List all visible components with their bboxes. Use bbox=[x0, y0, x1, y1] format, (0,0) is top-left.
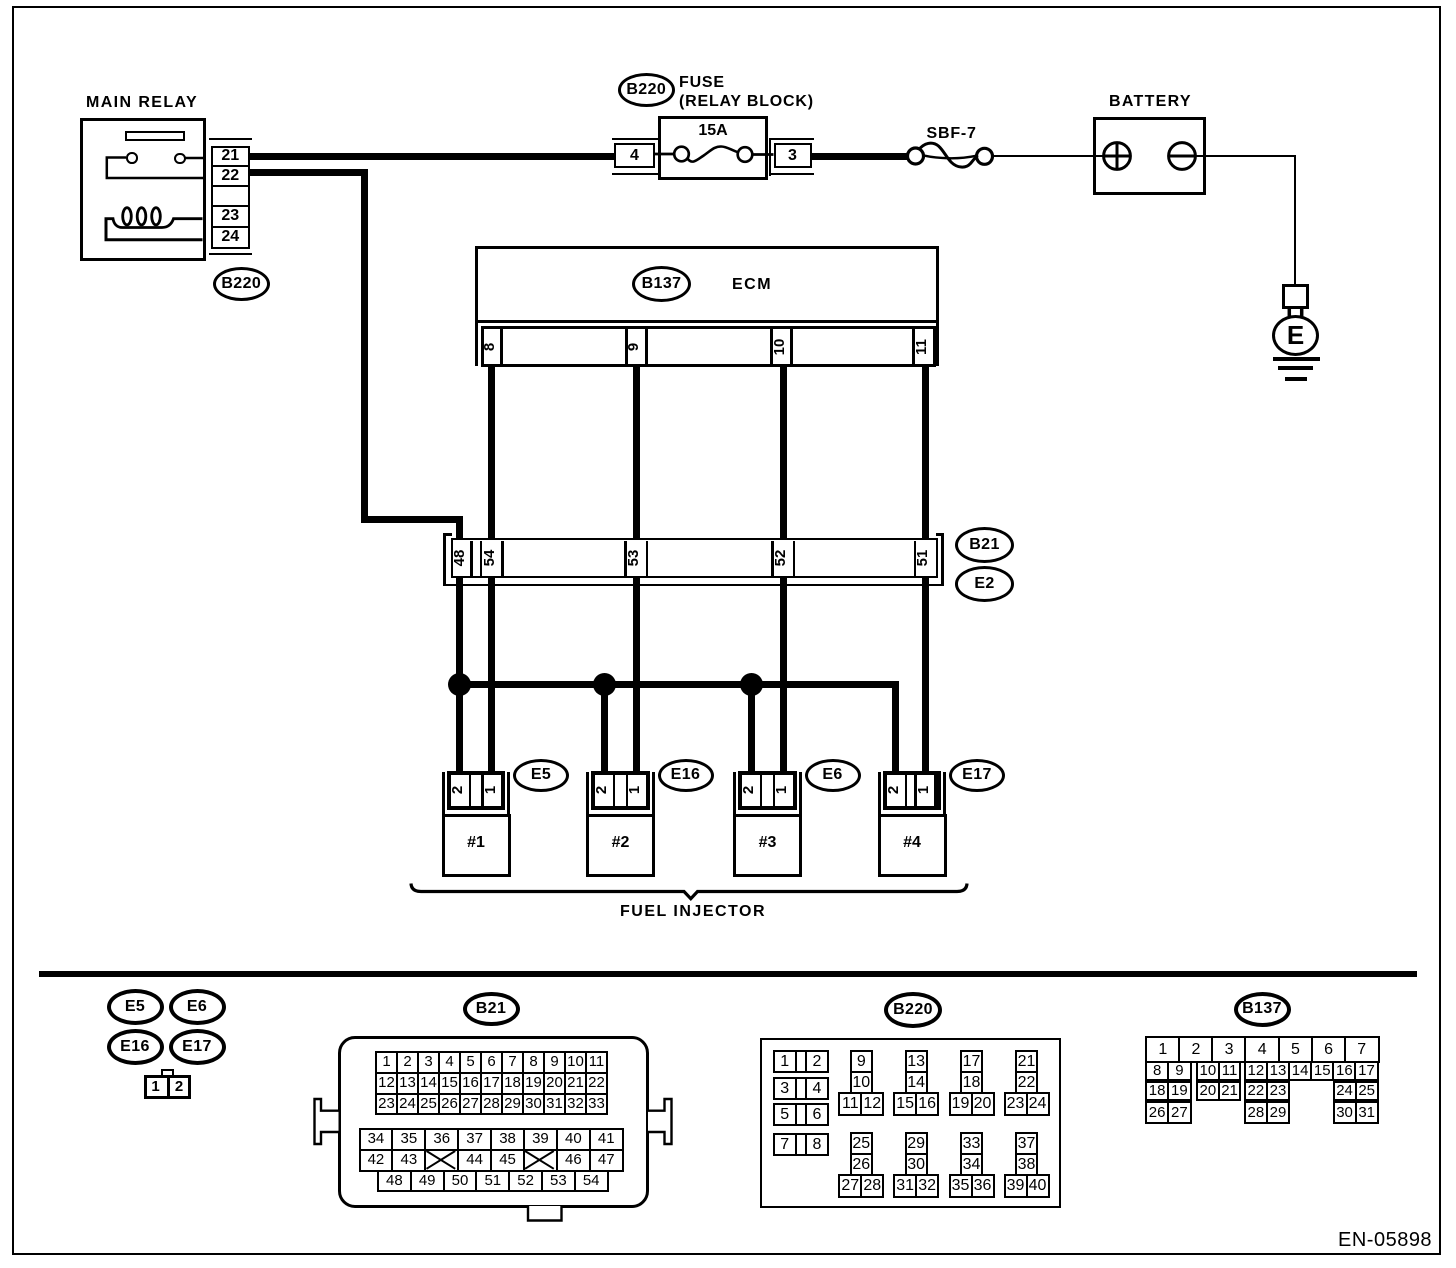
B137 view pin 4 bbox=[1244, 1036, 1280, 1063]
B220 view pins 13/14/15/16 bbox=[905, 1050, 928, 1073]
connector pin 51 bbox=[914, 547, 936, 569]
B21 view pin 41 bbox=[589, 1128, 624, 1151]
B21 view pin 24 bbox=[396, 1093, 419, 1116]
oval E16 (view) bbox=[107, 1029, 164, 1065]
B220 connector outer box bbox=[760, 1038, 1061, 1208]
B137 view pin 16 bbox=[1332, 1061, 1356, 1082]
connector pin 54 bbox=[481, 547, 503, 569]
wire: fuse pin 3 to SBF-7 bbox=[812, 153, 909, 160]
B21 view pin 17 bbox=[480, 1072, 503, 1095]
B137 view pin 3 bbox=[1211, 1036, 1247, 1063]
B21 view pin cell 47 bbox=[589, 1149, 624, 1172]
oval B220 at fuse bbox=[618, 73, 676, 107]
B21 view pin 38 bbox=[490, 1128, 525, 1151]
injector #4 pin 2 bbox=[885, 779, 907, 801]
B21 view pin 10 bbox=[564, 1051, 587, 1074]
fuse element symbol bbox=[674, 147, 689, 162]
B21 view pin 14 bbox=[417, 1072, 440, 1095]
wire: bus branch to injector 3 pin 2 bbox=[748, 684, 755, 774]
fuse pin 4 outer lines bbox=[612, 138, 659, 141]
B21 view pin cell 43 bbox=[391, 1149, 426, 1172]
wire: battery internal terminal stubs bbox=[1093, 155, 1105, 158]
main relay connector B220 outer lines bbox=[209, 138, 252, 141]
injector #3 body bbox=[733, 814, 802, 877]
B137 view pin 13 bbox=[1266, 1061, 1290, 1082]
battery box bbox=[1093, 117, 1207, 195]
B21 view blocked cell X marks bbox=[427, 1151, 456, 1169]
B21 view pin 54 bbox=[574, 1170, 609, 1192]
pin 23 bbox=[211, 207, 251, 225]
B137 view pin 11 bbox=[1218, 1061, 1242, 1082]
oval B220 (view) bbox=[884, 992, 942, 1029]
fuse value 15A bbox=[658, 123, 768, 139]
drawing number EN-05898 bbox=[1338, 1229, 1432, 1252]
B21 view pin cell 46 bbox=[556, 1149, 591, 1172]
SBF-7 fusible link symbol bbox=[908, 148, 924, 164]
ECM pin row bbox=[481, 326, 936, 367]
B21 view bottom tab bbox=[528, 1206, 562, 1221]
connector pin 52 bbox=[772, 547, 794, 569]
SBF-7 label bbox=[927, 126, 977, 142]
fuel injector brace bbox=[411, 884, 967, 899]
pin 21 bbox=[211, 147, 251, 164]
B21 view pin 37 bbox=[457, 1128, 492, 1151]
ECM pin 8 bbox=[481, 336, 503, 358]
injector #2 pin 2 bbox=[593, 779, 615, 801]
B21 view pin 18 bbox=[501, 1072, 524, 1095]
B21 view pin 30 bbox=[522, 1093, 545, 1116]
B21 view left tab bbox=[315, 1099, 339, 1144]
oval B220 at main relay bbox=[213, 267, 270, 301]
wire: connector pin 53 down to injector 2 pin 1 bbox=[633, 576, 640, 774]
pin 22 bbox=[211, 167, 251, 184]
B137 view pin 29 bbox=[1266, 1101, 1290, 1124]
fuse pin 3 outer lines bbox=[769, 138, 814, 141]
injector #4 pin 1 bbox=[915, 779, 937, 801]
injector #1 pin 2 bbox=[449, 779, 471, 801]
view pin 1 bbox=[144, 1075, 167, 1100]
B21 view pin 49 bbox=[410, 1170, 445, 1192]
main relay switch wiring bbox=[107, 158, 203, 179]
B137 view pin 20 bbox=[1196, 1081, 1220, 1102]
B137 view pin 14 bbox=[1288, 1061, 1312, 1082]
B21 view pin 52 bbox=[508, 1170, 543, 1192]
B220 view pins 9/10/11/12 bbox=[850, 1050, 873, 1073]
B137 view pin 12 bbox=[1244, 1061, 1268, 1082]
battery plus terminal bbox=[1104, 143, 1131, 170]
B21 view pin 12 bbox=[375, 1072, 398, 1095]
oval E6 at injector #3 bbox=[805, 759, 861, 792]
ECM pin 10 bbox=[771, 336, 793, 358]
view pin 2 bbox=[167, 1075, 191, 1100]
B21 view pin 23 bbox=[375, 1093, 398, 1116]
injector #2 pin 1 bbox=[626, 779, 648, 801]
B21 view pin 21 bbox=[564, 1072, 587, 1095]
injector connector view tab bbox=[161, 1069, 174, 1077]
B21 view pin 35 bbox=[391, 1128, 426, 1151]
wire: ECM pin 9 to connector pin 53 bbox=[633, 364, 640, 540]
injector #1 pin 1 bbox=[482, 779, 504, 801]
connector B21/E2 row box bbox=[451, 538, 938, 578]
B220 view pins 3/4 bbox=[773, 1077, 798, 1100]
B21 view pin 27 bbox=[459, 1093, 482, 1116]
main relay coil bbox=[105, 219, 203, 228]
B220 view pins 5/6 bbox=[773, 1103, 798, 1126]
injector #1 body bbox=[442, 814, 511, 877]
B21 view right tab bbox=[648, 1099, 672, 1144]
B21 view pin 32 bbox=[564, 1093, 587, 1116]
B21 view pin 2 bbox=[396, 1051, 419, 1074]
B21 view pin 13 bbox=[396, 1072, 419, 1095]
wire: battery minus terminal to ground connector bbox=[1195, 155, 1296, 158]
B220 view pins 33/34/35/36 bbox=[960, 1132, 983, 1155]
ground connector neck bbox=[1289, 308, 1301, 317]
B137 view pin 30 bbox=[1333, 1101, 1357, 1124]
wire: connector pin 52 down to injector 3 pin 1 bbox=[780, 576, 787, 774]
B137 view pin 28 bbox=[1244, 1101, 1268, 1124]
injector #4 body bbox=[878, 814, 947, 877]
B21 view pin 48 bbox=[377, 1170, 412, 1192]
connector pin 53 bbox=[625, 547, 647, 569]
oval E5 (view) bbox=[107, 989, 164, 1025]
ECM pin 11 bbox=[913, 336, 935, 358]
fuse box bbox=[658, 116, 768, 180]
oval B137 at ECM bbox=[632, 266, 691, 302]
injector #3 pin 2 bbox=[740, 779, 762, 801]
fuse pin 4 bbox=[614, 143, 655, 168]
B21 view pin cell blocked bbox=[523, 1149, 558, 1172]
main relay connector cells bbox=[211, 146, 251, 250]
wire: main relay pin 21 to fuse pin 4 bbox=[248, 153, 615, 160]
B21 view pin 28 bbox=[480, 1093, 503, 1116]
ground connector box bbox=[1282, 284, 1309, 309]
oval E2 bbox=[955, 566, 1014, 602]
B21 view pin 50 bbox=[443, 1170, 478, 1192]
B21 view pin cell 44 bbox=[457, 1149, 492, 1172]
ECM pin 9 bbox=[625, 336, 647, 358]
battery minus terminal bbox=[1169, 143, 1196, 170]
B137 view pin 18 bbox=[1145, 1081, 1169, 1102]
B21 view pin 33 bbox=[585, 1093, 608, 1116]
B21 connector body bbox=[338, 1036, 650, 1208]
B137 view pin 5 bbox=[1278, 1036, 1314, 1063]
B137 view pin 19 bbox=[1167, 1081, 1191, 1102]
injector connector view box bbox=[144, 1075, 191, 1100]
B137 view pin 1 bbox=[1145, 1036, 1181, 1063]
B220 view pins 37/38/39/40 bbox=[1015, 1132, 1038, 1155]
main relay contact left bbox=[126, 152, 138, 164]
connector pin 48 bbox=[451, 547, 473, 569]
ground symbol lines bbox=[1273, 357, 1320, 361]
oval E17 at injector #4 bbox=[949, 759, 1005, 792]
injector #2 body bbox=[586, 814, 655, 877]
B21 view pin cell 45 bbox=[490, 1149, 525, 1172]
B137 view pin 10 bbox=[1196, 1061, 1220, 1082]
B137 view pin 17 bbox=[1354, 1061, 1378, 1082]
connector B21/E2 outer walls bbox=[443, 533, 446, 586]
B137 view pin 27 bbox=[1167, 1101, 1191, 1124]
B21 view pin 53 bbox=[541, 1170, 576, 1192]
oval B21 bbox=[955, 527, 1014, 563]
B21 view pin 26 bbox=[438, 1093, 461, 1116]
pin 24 bbox=[211, 228, 251, 246]
B137 view pin 24 bbox=[1333, 1081, 1357, 1102]
B220 view pins 29/30/31/32 bbox=[905, 1132, 928, 1155]
B21 view pin 19 bbox=[522, 1072, 545, 1095]
battery label bbox=[1109, 94, 1192, 110]
B21 view pin 36 bbox=[424, 1128, 459, 1151]
B21 view pin 8 bbox=[522, 1051, 545, 1074]
B137 view pin 15 bbox=[1310, 1061, 1334, 1082]
B21 view pin 40 bbox=[556, 1128, 591, 1151]
B21 view pin 5 bbox=[459, 1051, 482, 1074]
oval B21 (view) bbox=[463, 992, 520, 1027]
injector #3 pin 1 bbox=[773, 779, 795, 801]
wire: ground bus of injectors bbox=[456, 681, 899, 688]
B21 view pin 3 bbox=[417, 1051, 440, 1074]
B137 view pin 31 bbox=[1355, 1101, 1379, 1124]
wire: ECM pin 11 to connector pin 51 bbox=[922, 364, 929, 540]
injector #1 connector bbox=[442, 772, 445, 817]
ECM connector side walls bbox=[475, 320, 479, 366]
B137 view pin 25 bbox=[1355, 1081, 1379, 1102]
oval E16 at injector #2 bbox=[658, 759, 714, 792]
B21 view pin 15 bbox=[438, 1072, 461, 1095]
B137 view pin 26 bbox=[1145, 1101, 1169, 1124]
injector #2 connector bbox=[586, 772, 589, 817]
junction dot at injector 2 branch bbox=[593, 673, 616, 696]
B21 view pin 29 bbox=[501, 1093, 524, 1116]
B21 view pin 7 bbox=[501, 1051, 524, 1074]
B220 view pins 7/8 bbox=[773, 1133, 798, 1156]
B21 view pin 51 bbox=[475, 1170, 510, 1192]
wire: connector pin 48 down to injector 1 pin 2 bbox=[456, 576, 463, 774]
fuel injector label bbox=[620, 904, 766, 920]
B21 view pin 31 bbox=[543, 1093, 566, 1116]
fuse pin 3 bbox=[774, 143, 812, 168]
main relay box bbox=[80, 118, 207, 261]
ground circle E bbox=[1272, 315, 1319, 356]
B137 view pin 7 bbox=[1344, 1036, 1380, 1063]
B21 view pin cell blocked bbox=[424, 1149, 459, 1172]
B21 view pin 9 bbox=[543, 1051, 566, 1074]
main relay label bbox=[86, 95, 198, 111]
oval E5 at injector #1 bbox=[513, 759, 569, 792]
wire: main relay pin 22 down to connector B21 pin 48 bbox=[248, 169, 368, 176]
B21 view pin 1 bbox=[375, 1051, 398, 1074]
wire: SBF-7 to battery bbox=[991, 155, 1093, 158]
B21 view pin 4 bbox=[438, 1051, 461, 1074]
oval E17 (view) bbox=[169, 1029, 226, 1065]
oval E6 (view) bbox=[169, 989, 226, 1025]
B137 view pin 9 bbox=[1167, 1061, 1191, 1082]
B220 view pins 21/22/23/24 bbox=[1015, 1050, 1038, 1073]
B21 view pin 20 bbox=[543, 1072, 566, 1095]
B21 view pin 16 bbox=[459, 1072, 482, 1095]
junction dot at injector 3 branch bbox=[740, 673, 763, 696]
B220 view pins 25/26/27/28 bbox=[850, 1132, 873, 1155]
main relay inner bar bbox=[125, 131, 185, 141]
wire: connector pin 51 down to injector 4 pin 1 bbox=[922, 576, 929, 774]
wire: ECM pin 8 to connector pin 54 bbox=[488, 364, 495, 540]
B21 view pin 39 bbox=[523, 1128, 558, 1151]
B137 view pin 21 bbox=[1218, 1081, 1242, 1102]
B137 view pin 23 bbox=[1266, 1081, 1290, 1102]
B220 view pins 17/18/19/20 bbox=[960, 1050, 983, 1073]
B21 view pin 11 bbox=[585, 1051, 608, 1074]
fuse label bbox=[679, 75, 725, 91]
injector #4 connector bbox=[878, 772, 881, 817]
B137 view pin 6 bbox=[1311, 1036, 1347, 1063]
wire: ECM pin 10 to connector pin 52 bbox=[780, 364, 787, 540]
B137 view pin 22 bbox=[1244, 1081, 1268, 1102]
B21 view pin 34 bbox=[359, 1128, 394, 1151]
separator line bbox=[39, 971, 1418, 978]
B21 view pin 22 bbox=[585, 1072, 608, 1095]
B220 view pins 1/2 bbox=[773, 1050, 798, 1073]
B137 view pin 8 bbox=[1145, 1061, 1169, 1082]
B137 view pin 2 bbox=[1178, 1036, 1214, 1063]
main relay contact right bbox=[174, 153, 186, 165]
B21 view pin cell 42 bbox=[359, 1149, 394, 1172]
oval B137 (view) bbox=[1234, 992, 1291, 1027]
ECM box bbox=[475, 246, 939, 323]
wire: connector pin 54 down to injector 1 pin 1 bbox=[488, 576, 495, 774]
wire: bus branch to injector 2 pin 2 bbox=[601, 684, 608, 774]
junction dot at pin 48 wire and bus bbox=[448, 673, 471, 696]
injector #3 connector bbox=[733, 772, 736, 817]
B21 view pin 6 bbox=[480, 1051, 503, 1074]
B21 view pin 25 bbox=[417, 1093, 440, 1116]
ECM label bbox=[732, 277, 772, 293]
